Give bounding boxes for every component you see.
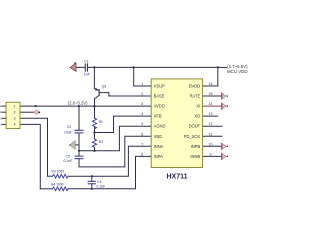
svg-text:AGND: AGND [154,124,166,129]
svg-text:DOUT: DOUT [189,124,201,129]
svg-text:R1: R1 [99,120,103,124]
svg-text:5: 5 [141,122,143,126]
svg-text:3: 3 [141,102,143,106]
svg-text:2: 2 [14,111,16,115]
svg-text:10uF: 10uF [64,130,72,134]
svg-text:S-: S- [0,116,3,120]
svg-text:2: 2 [141,92,143,96]
svg-text:VSUP: VSUP [154,84,165,89]
svg-text:HX711: HX711 [166,174,187,181]
svg-text:0.1uF: 0.1uF [64,159,73,163]
svg-text:R2: R2 [99,140,103,144]
svg-text:6: 6 [141,132,143,136]
svg-text:C2: C2 [67,125,71,129]
svg-text:15: 15 [209,92,213,96]
svg-text:XI: XI [196,104,200,109]
svg-text:16: 16 [209,82,213,86]
svg-text:INPB: INPB [191,144,201,149]
svg-text:C1: C1 [84,60,88,64]
svg-text:Q1: Q1 [102,84,107,88]
svg-text:INNA: INNA [154,144,164,149]
svg-text:E+: E+ [0,104,4,108]
svg-text:1nF: 1nF [84,72,90,76]
svg-text:INNB: INNB [190,154,200,159]
svg-text:(2.6~5.2V): (2.6~5.2V) [68,100,88,105]
svg-text:C3: C3 [66,155,70,159]
svg-text:11: 11 [209,132,213,136]
svg-text:VFB: VFB [154,114,162,119]
svg-text:XO: XO [194,114,200,119]
svg-text:E-: E- [0,110,3,114]
svg-text:1: 1 [141,82,143,86]
svg-text:AVDD: AVDD [154,104,165,109]
svg-text:BASE: BASE [154,94,165,99]
svg-text:9: 9 [210,152,212,156]
svg-text:0.1uF: 0.1uF [97,185,106,189]
svg-text:10: 10 [209,142,213,146]
svg-text:12: 12 [209,122,213,126]
svg-text:S+: S+ [0,122,4,126]
svg-text:1: 1 [14,104,16,108]
svg-text:4: 4 [141,112,143,116]
svg-text:4: 4 [14,123,16,127]
svg-text:3: 3 [14,117,16,121]
svg-text:VBG: VBG [154,134,163,139]
svg-text:R3 1000: R3 1000 [52,170,65,174]
svg-text:PD_SCK: PD_SCK [184,134,201,139]
svg-text:RATE: RATE [190,94,201,99]
svg-text:14: 14 [209,102,213,106]
svg-text:13: 13 [209,112,213,116]
svg-text:INPA: INPA [154,154,164,159]
svg-text:R4 1000: R4 1000 [51,182,64,186]
svg-text:C4: C4 [97,180,101,184]
svg-text:MCU VDD: MCU VDD [227,69,248,74]
svg-text:7: 7 [141,142,143,146]
svg-text:8: 8 [141,152,143,156]
svg-text:DVDD: DVDD [189,84,201,89]
